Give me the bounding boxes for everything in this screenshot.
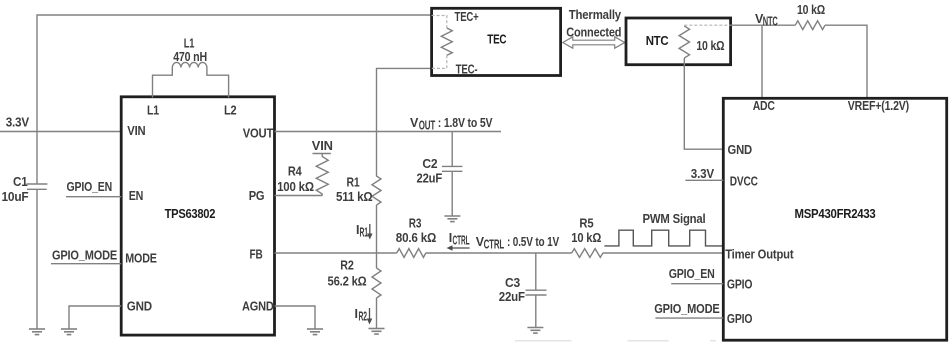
arrow ICTRL <box>447 231 470 251</box>
svg-text:Connected: Connected <box>566 26 621 40</box>
wire TEC- to VOUT rail <box>377 68 432 131</box>
wire ADC drop <box>761 25 763 98</box>
svg-text:GPIO_MODE: GPIO_MODE <box>52 249 117 263</box>
wire R5 to Timer Output <box>603 252 723 254</box>
svg-text:MODE: MODE <box>125 252 157 266</box>
svg-text:10uF: 10uF <box>2 190 30 204</box>
resistor R1 <box>336 132 381 254</box>
wire 3.3V riser to TEC+ <box>37 15 432 132</box>
svg-text:CTRL: CTRL <box>453 234 470 248</box>
resistor NTC thermistor <box>684 24 730 26</box>
svg-text:PWM Signal: PWM Signal <box>643 212 706 226</box>
svg-text:80.6 kΩ: 80.6 kΩ <box>396 231 437 245</box>
svg-text:10 kΩ: 10 kΩ <box>571 231 601 245</box>
svg-text:FB: FB <box>250 248 263 262</box>
wire GPIO pin (EN) <box>671 283 723 285</box>
svg-text:22uF: 22uF <box>499 290 526 304</box>
svg-text:R1: R1 <box>360 226 369 240</box>
wire GND pin <box>69 306 121 329</box>
svg-text:56.2 kΩ: 56.2 kΩ <box>328 275 367 289</box>
resistor R2 <box>328 253 382 329</box>
module NTC <box>626 18 731 65</box>
svg-text:R3: R3 <box>409 217 422 231</box>
svg-text:C1: C1 <box>13 175 28 189</box>
svg-text:L1: L1 <box>147 104 159 118</box>
svg-text:TPS63802: TPS63802 <box>165 206 216 221</box>
svg-text:DVCC: DVCC <box>730 175 758 189</box>
svg-text:MSP430FR2433: MSP430FR2433 <box>795 206 876 221</box>
PWM waveform <box>604 230 723 246</box>
svg-text:GND: GND <box>728 143 753 157</box>
svg-text:: 1.8V to 5V: : 1.8V to 5V <box>438 116 493 130</box>
svg-text:PG: PG <box>249 189 265 203</box>
wire MODE pin <box>51 263 121 265</box>
svg-text:L1: L1 <box>184 37 195 51</box>
capacitor C2 <box>417 132 463 217</box>
wire VIN stub <box>313 153 331 155</box>
svg-text:C3: C3 <box>505 276 520 290</box>
svg-text:TEC+: TEC+ <box>455 10 479 24</box>
ground C3 <box>527 328 543 334</box>
resistor R3 <box>396 217 437 258</box>
svg-text:Timer Output: Timer Output <box>725 248 794 262</box>
svg-text:ADC: ADC <box>753 99 775 113</box>
svg-text:3.3V: 3.3V <box>691 167 715 181</box>
svg-text:22uF: 22uF <box>417 172 443 186</box>
IC U2 MSP430FR2433 <box>723 98 946 340</box>
svg-text:511 kΩ: 511 kΩ <box>336 190 373 204</box>
svg-text:VIN: VIN <box>127 124 145 138</box>
svg-text:CTRL: CTRL <box>484 238 505 252</box>
wire FB line <box>275 252 397 254</box>
wire VREF drop <box>825 25 867 98</box>
arrow IR1 <box>356 223 373 240</box>
ground R2 <box>369 329 385 335</box>
svg-text:GPIO: GPIO <box>727 312 753 326</box>
svg-text:I: I <box>355 307 358 321</box>
svg-text:I: I <box>449 231 452 245</box>
wire PG pin <box>275 195 323 197</box>
svg-text:TEC-: TEC- <box>456 63 478 77</box>
svg-text:VREF+(1.2V): VREF+(1.2V) <box>848 99 909 113</box>
svg-text:TEC: TEC <box>487 32 507 47</box>
ground C1 <box>29 329 45 335</box>
svg-text:10 kΩ: 10 kΩ <box>797 3 825 17</box>
inductor L1 <box>153 37 229 98</box>
svg-text:GPIO_EN: GPIO_EN <box>669 267 715 281</box>
resistor 10k pullup <box>795 3 825 30</box>
ground GND pin <box>61 329 77 335</box>
svg-text:R1: R1 <box>347 176 360 190</box>
svg-text:AGND: AGND <box>242 300 274 314</box>
thermally-connected arrow <box>563 8 625 48</box>
resistor R5 <box>571 217 603 258</box>
wire DVCC pin <box>685 179 723 181</box>
svg-text:R2: R2 <box>340 259 354 273</box>
svg-text:GPIO_MODE: GPIO_MODE <box>654 302 719 316</box>
wire 3.3V rail to VIN <box>0 131 121 133</box>
resistor TEC internal <box>432 16 447 29</box>
svg-text:GND: GND <box>127 300 152 314</box>
module TEC <box>432 8 561 76</box>
capacitor C1 <box>2 132 48 330</box>
wire VNTC <box>731 24 796 26</box>
svg-text:NTC: NTC <box>763 15 778 29</box>
svg-text:R5: R5 <box>579 217 593 231</box>
resistor R4 <box>277 154 328 196</box>
svg-text:GPIO: GPIO <box>727 278 753 292</box>
svg-text:VOUT: VOUT <box>243 127 274 141</box>
svg-text:C2: C2 <box>422 157 437 171</box>
wire AGND pin <box>275 306 316 329</box>
svg-text:R2: R2 <box>359 310 368 324</box>
ground AGND <box>307 329 323 335</box>
wire NTC to GND <box>684 58 723 149</box>
svg-text:V: V <box>410 116 419 130</box>
arrow IR2 <box>355 307 373 325</box>
svg-text:470 nH: 470 nH <box>173 50 207 64</box>
svg-text:10 kΩ: 10 kΩ <box>696 39 724 53</box>
ground C2 <box>444 216 460 222</box>
svg-text:EN: EN <box>129 189 144 203</box>
svg-text:Thermally: Thermally <box>569 8 622 22</box>
svg-text:VIN: VIN <box>312 139 333 153</box>
svg-text:: 0.5V to 1V: : 0.5V to 1V <box>507 235 560 249</box>
svg-text:OUT: OUT <box>419 119 436 133</box>
capacitor C3 <box>499 253 547 328</box>
wire GPIO pin (MODE) <box>655 317 723 319</box>
svg-text:L2: L2 <box>224 104 237 118</box>
svg-text:100 kΩ: 100 kΩ <box>277 180 314 194</box>
svg-text:R4: R4 <box>288 164 302 178</box>
wire FB to R5 <box>426 252 572 254</box>
IC U1 TPS63802 <box>121 97 274 335</box>
wire VOUT rail <box>275 131 502 133</box>
svg-text:3.3V: 3.3V <box>6 116 30 130</box>
wire EN pin <box>66 196 121 198</box>
svg-text:NTC: NTC <box>646 33 669 48</box>
svg-text:GPIO_EN: GPIO_EN <box>67 180 113 194</box>
